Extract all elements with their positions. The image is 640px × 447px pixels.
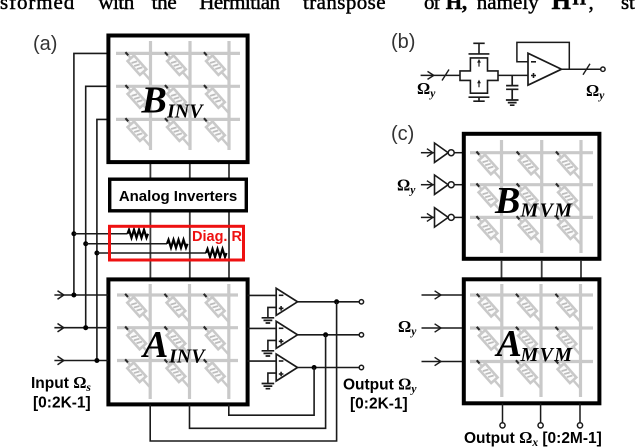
input wire row 3 A_MVM with arrow	[422, 361, 463, 363]
wire inverter 1 to B_MVM	[454, 152, 462, 154]
crossbar row lines of B_INV	[116, 53, 240, 119]
crossbar row lines of A_MVM	[470, 295, 593, 362]
label Input Omega_s	[31, 373, 91, 412]
memristor cell	[552, 291, 583, 325]
input wire with arrow (b)	[421, 74, 460, 76]
memristor cell	[474, 291, 505, 325]
memristor cell	[553, 181, 584, 215]
wire op-amp 1 non-inverting input to ground	[268, 307, 276, 317]
wire column stubs B_MVM to A_MVM	[502, 261, 582, 278]
svg-text:the: the	[152, 0, 177, 14]
memristor cell	[161, 356, 192, 390]
output wire 2 A_MVM	[540, 403, 542, 423]
wire column 1 stub B_INV to A_INV	[149, 164, 151, 278]
memristor cell	[162, 82, 193, 116]
crossbar column lines of B_INV	[151, 41, 230, 150]
crossbar column lines of A_MVM	[502, 284, 581, 397]
node junction dot input row 2	[83, 325, 88, 330]
resistor R3 (diag)	[206, 249, 227, 257]
wire op-amp 3 output	[298, 367, 360, 369]
feedback wire op-amp 2 to A_INV column 2	[190, 335, 326, 429]
ground symbol op-amp 2	[262, 351, 275, 356]
memristor cell	[552, 324, 583, 358]
op-amp U4 (b)	[528, 53, 562, 85]
capacitor C1 (b)	[506, 75, 518, 99]
wire column 3 stub B_INV to A_INV	[228, 164, 230, 278]
memristor cell	[122, 324, 153, 358]
crossbar row lines of A_INV	[117, 295, 238, 361]
feedback wire op-amp 3 to A_INV column 3	[229, 368, 314, 416]
wire column 2 stub B_INV to A_INV	[189, 164, 191, 278]
svg-text:namely: namely	[477, 0, 540, 14]
svg-text:H,: H,	[446, 0, 467, 14]
svg-text:st: st	[621, 0, 635, 14]
memristor cell	[162, 115, 193, 149]
output wire 3 A_MVM	[579, 403, 581, 423]
node junction dot input row 1	[71, 293, 76, 298]
op-amp U3	[276, 354, 297, 381]
wire from B_INV row2 down to input row2	[86, 86, 108, 327]
label B_INV	[141, 80, 205, 123]
wire A_INV row 1 to op-amp 1 inverting input	[248, 294, 277, 296]
wire A_INV row 3 to op-amp 3 inverting input	[248, 360, 277, 362]
memristor cell	[122, 356, 153, 390]
svg-text:H: H	[552, 0, 572, 15]
node junction dot output 1	[334, 299, 339, 304]
memristor cell	[474, 324, 505, 358]
svg-text:INV: INV	[166, 101, 204, 123]
inverter buffer 2 input wire with arrow	[421, 184, 435, 186]
crossbar box A_INV	[108, 279, 247, 404]
resistor R2 (diag)	[167, 240, 188, 248]
wire inverter 3 to B_MVM	[454, 216, 462, 218]
bus slash mark output (b)	[583, 64, 590, 75]
svg-text:MVM: MVM	[520, 344, 574, 366]
input wire row 2 A_MVM with arrow	[422, 327, 463, 329]
memristor cell	[473, 213, 504, 247]
memristor cell	[201, 115, 232, 149]
crossbar box A_MVM	[464, 279, 600, 403]
memristor cell	[513, 357, 544, 391]
svg-text:(b): (b)	[391, 31, 415, 53]
svg-text:A: A	[141, 324, 168, 366]
wire op-amp 2 output	[298, 334, 360, 336]
transmission gate T1 (b)	[460, 43, 498, 101]
label B_MVM	[494, 180, 573, 222]
resistor R1 (diag)	[128, 230, 149, 238]
memristor cell	[201, 324, 232, 358]
op-amp U1	[276, 288, 297, 315]
svg-text:sformed: sformed	[0, 0, 75, 14]
memristor cell	[122, 291, 153, 325]
wire diag row 3	[97, 252, 206, 254]
wire op-amp 3 non-inverting input to ground	[268, 373, 276, 383]
memristor cell	[201, 82, 232, 116]
label Output Omega_y	[343, 375, 417, 413]
svg-text:[0:2K-1]: [0:2K-1]	[33, 395, 91, 412]
ground symbol op-amp 3	[262, 384, 275, 389]
svg-text:transpose: transpose	[303, 0, 386, 14]
label A_MVM	[495, 323, 574, 366]
memristor cell	[513, 213, 544, 247]
wire gate to op-amp (b)	[498, 74, 528, 76]
feedback wire op-amp 1 to A_INV column 1	[150, 302, 336, 441]
wire from B_INV row3 down to input row3	[97, 119, 108, 360]
inverter buffer 3	[435, 208, 449, 227]
crossbar box B_MVM	[464, 134, 600, 259]
node junction dot row1/diag wire	[71, 231, 76, 236]
wire op-amp 1 output	[298, 301, 360, 303]
svg-text:with: with	[98, 0, 134, 14]
feedback wire op-amp (b)	[517, 42, 569, 69]
inverter buffer 1 input wire with arrow	[421, 152, 435, 154]
input wire row 3 with arrow	[54, 360, 108, 362]
input wire row 2 with arrow	[54, 327, 108, 329]
memristor cell	[513, 181, 544, 215]
ground symbol op-amp 1	[262, 318, 275, 323]
wire inverter 2 to B_MVM	[454, 184, 462, 186]
svg-text:MVM: MVM	[520, 200, 574, 222]
memristor cell	[122, 82, 153, 116]
wire from B_INV row1 down to input row1	[74, 53, 108, 295]
input wire row 1 A_MVM with arrow	[422, 294, 463, 296]
output wire (b)	[562, 68, 601, 70]
wire op-amp 2 non-inverting input to ground	[268, 340, 276, 350]
svg-text:A: A	[495, 323, 522, 365]
output terminal circle 1	[359, 300, 363, 304]
block Analog Inverters	[110, 179, 247, 211]
output terminal circle 2 A_MVM	[538, 423, 543, 428]
svg-text:Output Ωy: Output Ωy	[343, 375, 417, 396]
memristor cell	[474, 357, 505, 391]
svg-text:INV: INV	[168, 346, 206, 368]
svg-text:B: B	[494, 180, 520, 222]
memristor cell	[552, 357, 583, 391]
output terminal circle (b)	[601, 67, 605, 71]
memristor cell	[122, 49, 153, 83]
output terminal circle 2	[359, 333, 363, 337]
memristor cell	[553, 149, 584, 183]
inverter buffer 2	[435, 175, 449, 194]
inverter buffer 3 input wire with arrow	[421, 216, 435, 218]
svg-text:Analog Inverters: Analog Inverters	[119, 188, 237, 205]
memristor cell	[161, 324, 192, 358]
memristor cell	[513, 291, 544, 325]
memristor cell	[162, 49, 193, 83]
svg-text:H: H	[573, 0, 587, 9]
svg-text:B: B	[141, 80, 167, 122]
bus slash mark input (b)	[442, 70, 449, 81]
svg-text:[0:2K-1]: [0:2K-1]	[350, 396, 408, 413]
memristor cell	[201, 291, 232, 325]
svg-text:of: of	[424, 0, 440, 14]
ground symbol capacitor (b)	[506, 100, 519, 105]
memristor cell	[473, 181, 504, 215]
memristor cell	[161, 291, 192, 325]
memristor cell	[201, 49, 232, 83]
memristor cell	[201, 356, 232, 390]
svg-text:(a): (a)	[33, 33, 57, 55]
wire diag row 1	[74, 233, 128, 235]
output terminal circle 3 A_MVM	[577, 423, 582, 428]
node junction dot output 2	[323, 332, 328, 337]
memristor cell	[553, 213, 584, 247]
node junction dot row3/diag wire	[94, 251, 99, 256]
wire diag row 2	[86, 243, 167, 245]
svg-text:Diag. R: Diag. R	[192, 229, 242, 245]
input wire row 1 with arrow	[54, 294, 108, 296]
svg-text:Hermitian: Hermitian	[199, 0, 280, 14]
crossbar box B_INV	[108, 36, 247, 163]
cropped caption text line at top	[0, 0, 635, 15]
output terminal circle 3	[359, 365, 363, 369]
node junction dot row2/diag wire	[83, 241, 88, 246]
svg-text:Input Ωs: Input Ωs	[31, 373, 91, 394]
memristor cell	[513, 324, 544, 358]
memristor cell	[513, 149, 544, 183]
memristor cell	[473, 149, 504, 183]
svg-text:(c): (c)	[391, 123, 414, 145]
inverter buffer 1	[435, 143, 449, 162]
output terminal circle 1 A_MVM	[500, 423, 505, 428]
wire A_INV row 2 to op-amp 2 inverting input	[248, 327, 277, 329]
output wire 1 A_MVM	[502, 403, 504, 423]
node junction dot input row 3	[94, 358, 99, 363]
red box Diag. R	[110, 226, 244, 260]
node junction dot output 3	[312, 365, 317, 370]
label A_INV	[141, 324, 206, 368]
memristor cell	[122, 115, 153, 149]
crossbar column lines of B_MVM	[502, 140, 582, 253]
crossbar column lines of A_INV	[150, 284, 229, 399]
svg-text:,: ,	[589, 0, 594, 14]
crossbar row lines of B_MVM	[470, 153, 593, 218]
op-amp U2	[276, 321, 297, 348]
